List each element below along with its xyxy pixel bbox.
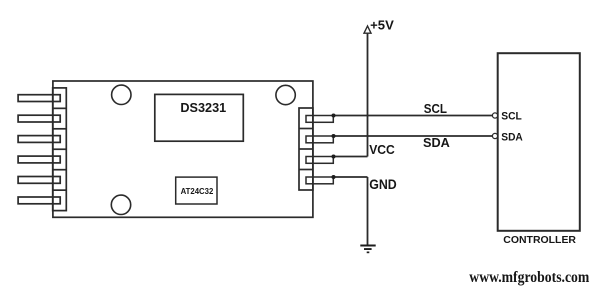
junction dot GND [332,175,336,179]
+5V supply triangle [364,26,371,33]
junction dot SCL [332,114,336,118]
left pin 6 [18,197,60,204]
svg-text:VCC: VCC [369,142,395,157]
mounting hole top-left [112,85,131,104]
controller pin circle SCL [492,113,497,118]
junction dot SDA [332,134,336,138]
controller box [498,53,580,231]
right pin 4 (GND) [306,177,333,184]
AT24C32 chip box [176,177,217,204]
DS3231 chip box [155,94,244,141]
left pin header [53,88,67,211]
right header cell divider 2 [299,148,313,150]
ground symbol bar 1 [360,245,375,247]
mounting hole top-right [276,85,295,104]
module body [53,81,313,217]
right pin 2 (SDA) [306,136,333,143]
wire SDA [333,135,492,137]
left header cell divider 2 [53,128,67,130]
svg-text:CONTROLLER: CONTROLLER [503,234,576,246]
svg-text:SCL: SCL [424,101,447,116]
wire +5V vertical [367,33,369,157]
left pin 1 [18,95,60,102]
left pin 3 [18,136,60,143]
right pin 3 (VCC) [306,157,333,164]
svg-text:SDA: SDA [423,135,450,150]
svg-text:www.mfgrobots.com: www.mfgrobots.com [469,269,590,286]
wire SCL [333,115,492,117]
left header cell divider 1 [53,107,67,109]
wire VCC [333,156,367,158]
ground symbol bar 2 [364,248,372,250]
right header cell divider 3 [299,169,313,171]
left header cell divider 4 [53,169,67,171]
right header cell divider 1 [299,128,313,130]
left pin 2 [18,115,60,122]
right pin header [299,108,313,190]
svg-text:SDA: SDA [501,131,523,143]
ground symbol bar 3 [367,252,370,254]
svg-text:GND: GND [369,177,397,192]
mounting hole bottom-left [111,195,130,214]
left pin 5 [18,177,60,184]
left header cell divider 3 [53,148,67,150]
svg-text:SCL: SCL [501,110,522,122]
svg-text:+5V: +5V [370,18,394,33]
controller pin circle SDA [492,133,497,138]
wire GND vertical [367,177,369,246]
svg-text:DS3231: DS3231 [180,100,226,115]
wire GND horizontal [333,176,367,178]
left header cell divider 5 [53,189,67,191]
svg-text:AT24C32: AT24C32 [181,186,214,196]
junction dot VCC [332,155,336,159]
right pin 1 (SCL) [306,116,333,123]
left pin 4 [18,156,60,163]
